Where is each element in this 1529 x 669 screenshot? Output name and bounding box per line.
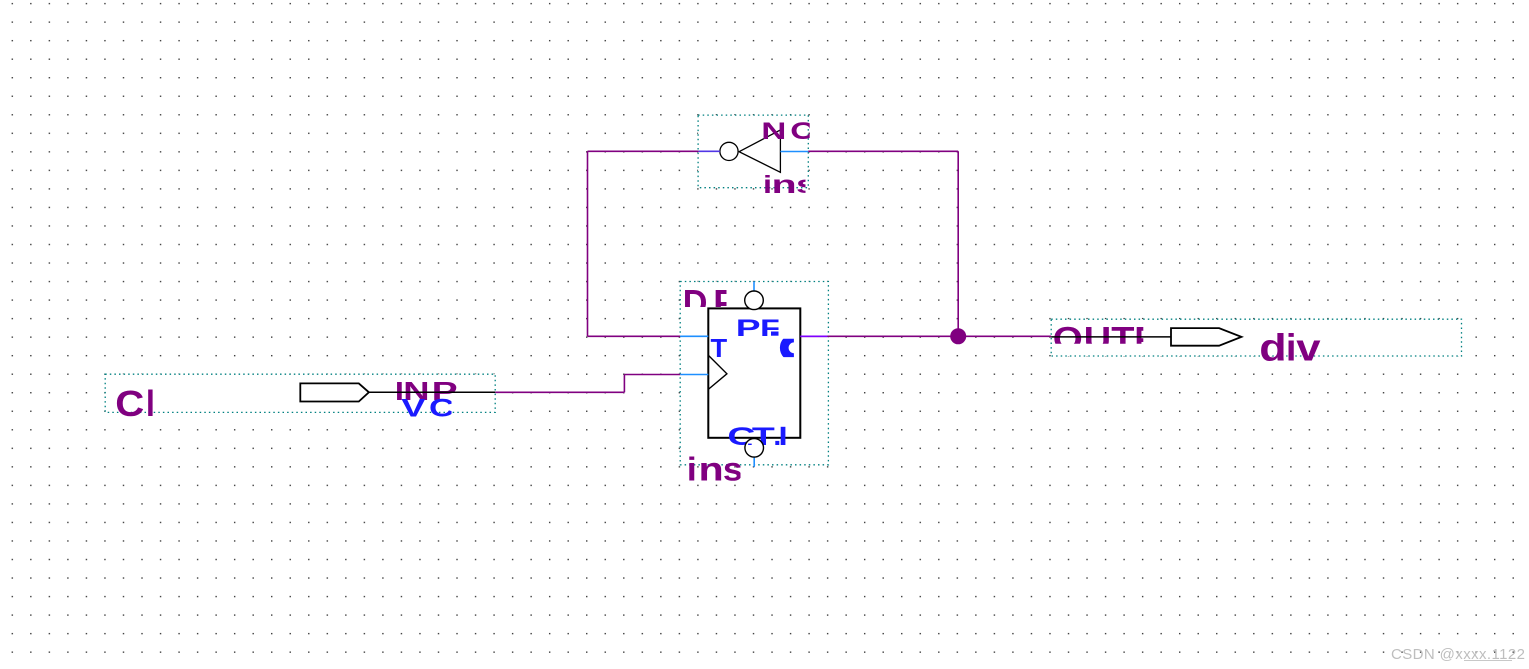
label Clk (input pin name) — [115, 384, 156, 425]
junction node — [950, 328, 966, 344]
output pin div symbol — [1171, 328, 1242, 346]
label T (data input) — [711, 334, 728, 363]
wire net clock horizontal upper — [624, 374, 680, 376]
label Q (output, clipped arc) — [784, 338, 804, 358]
svg-text:N: N — [761, 118, 786, 144]
label inst (NOT instance name) — [763, 170, 817, 199]
label DFF (symbol name) — [683, 282, 735, 323]
wire net clock vertical step — [623, 375, 625, 393]
pin stub D input (blue) — [680, 335, 708, 337]
wire net clock from input pin — [495, 391, 624, 393]
pin stub clock input (blue) — [680, 374, 708, 376]
DFF clear bubble — [745, 439, 764, 458]
DFF selection box — [680, 282, 828, 465]
pin stub NOT input (right) — [780, 151, 808, 153]
wire net feedback top horizontal — [588, 150, 699, 152]
svg-text:C: C — [115, 384, 144, 425]
DFF clock wedge — [708, 355, 727, 389]
label PRN (preset, clipped) — [736, 314, 782, 341]
wire net to D input — [588, 335, 681, 337]
pin stub DFF preset top (blue) — [753, 282, 755, 292]
DFF clear bubble inner dash — [748, 444, 752, 445]
pin stub output pin (black) — [1051, 336, 1171, 338]
DFF preset bubble — [745, 291, 764, 310]
label div (output pin name) — [1259, 326, 1321, 370]
pin stub Q output (overlapped violet) — [800, 335, 827, 337]
wire net junction vertical — [957, 151, 959, 336]
pin stub input pin (black) — [369, 391, 495, 393]
svg-text:v: v — [1296, 326, 1321, 369]
svg-text:n: n — [699, 450, 724, 487]
NOT gate bubble — [720, 142, 738, 160]
label VCC (default level, clipped) — [401, 394, 454, 422]
svg-text:n: n — [772, 171, 797, 199]
NOT gate U1 triangle — [739, 130, 780, 172]
pin stub DFF clear bottom (blue) — [753, 457, 755, 467]
wire net feedback left vertical — [587, 151, 589, 336]
label OUTPUT (pin type, clipped) — [1053, 319, 1157, 357]
svg-text:s: s — [723, 452, 743, 489]
output pin selection box — [1051, 319, 1461, 356]
svg-text:d: d — [1259, 326, 1286, 369]
svg-text:C: C — [429, 394, 454, 422]
wire net NOT input to junction — [808, 150, 958, 152]
wire net Q to output pin — [800, 335, 1051, 337]
label INPUT (pin type, clipped) — [395, 376, 458, 406]
pin stub NOT output (left, overlapped) — [699, 150, 720, 152]
svg-text:T: T — [711, 334, 728, 363]
input pin Clk symbol — [300, 383, 369, 401]
label inst (DFF instance name) — [687, 450, 743, 488]
svg-text:i: i — [1286, 327, 1297, 369]
NOT gate selection box — [698, 115, 808, 188]
input pin CLK selection box — [105, 374, 495, 412]
svg-text:V: V — [401, 394, 425, 422]
label CLRN (clear, clipped) — [727, 422, 785, 450]
DFF body rectangle — [708, 308, 800, 437]
svg-text:i: i — [687, 452, 697, 488]
label NOT (gate name) — [761, 118, 816, 145]
